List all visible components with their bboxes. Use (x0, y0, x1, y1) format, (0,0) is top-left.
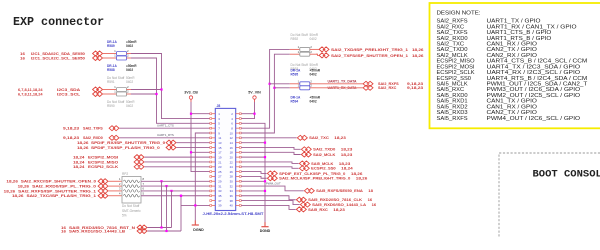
svg-text:18,26: 18,26 (412, 54, 424, 58)
svg-text:SAI2_MCLK: SAI2_MCLK (313, 153, 336, 157)
svg-text:SAI5_RXD0/ISO_14443_LA: SAI5_RXD0/ISO_14443_LA (312, 203, 366, 207)
svg-text:SAI2_MCLK/ISP_PRELIGHT_TRIG_0: SAI2_MCLK/ISP_PRELIGHT_TRIG_0 (279, 177, 350, 181)
svg-text:18,26: 18,26 (356, 177, 368, 181)
resistor R595 (290, 83, 300, 85)
svg-text:SAI2_RXD0: SAI2_RXD0 (83, 136, 103, 140)
svg-text:35: 35 (218, 194, 222, 198)
off-page connector SPDIF_TX (166, 145, 176, 150)
svg-text:R588: R588 (107, 68, 115, 72)
wire pin38 to SAI5_RXD0/ISO_14443_LA (241, 201, 300, 205)
svg-text:26: 26 (230, 170, 234, 174)
pin 5 (212, 122, 216, 124)
svg-text:16: 16 (20, 52, 25, 56)
wire riser stair 3 (171, 191, 173, 228)
svg-text:0402: 0402 (310, 37, 317, 41)
svg-text:18,26: 18,26 (4, 189, 16, 193)
svg-text:I2C1_SCL/I2C_SCL_SE050: I2C1_SCL/I2C_SCL_SE050 (31, 56, 85, 60)
svg-text:R594: R594 (291, 100, 299, 104)
svg-text:SAI5_RXD1/ISO_14443_LB: SAI5_RXD1/ISO_14443_LB (69, 229, 126, 233)
pin 10 (236, 132, 240, 134)
svg-text:25: 25 (218, 170, 222, 174)
svg-text:J-HE-20x2-2.54mm-ST-H8-SMT: J-HE-20x2-2.54mm-ST-H8-SMT (203, 212, 265, 216)
pin 28 (236, 175, 240, 177)
junction ground at pin20 row (264, 156, 266, 158)
ground DGND right (264, 222, 266, 227)
svg-text:28: 28 (230, 175, 234, 179)
pin 33 (212, 190, 216, 192)
pin 20 (236, 156, 240, 158)
off-page connector SAI2_RXD0/ISP_PL_TRIG_0 (98, 184, 108, 189)
resistor (do not stuff) on I2C3_SDA (103, 89, 117, 91)
svg-text:DGND: DGND (260, 229, 271, 233)
pin 4 (236, 118, 240, 120)
wire pin10 riser to R593 (241, 54, 290, 133)
svg-text:SAI2_RXC/ISP_SHUTTER_OPEN_0: SAI2_RXC/ISP_SHUTTER_OPEN_0 (21, 180, 96, 184)
pin 7 (212, 127, 216, 129)
svg-text:11: 11 (218, 136, 221, 140)
svg-text:23: 23 (218, 165, 222, 169)
off-page connector SAI5_RXC (296, 207, 306, 212)
svg-text:18,24: 18,24 (73, 156, 85, 160)
svg-text:16: 16 (368, 198, 373, 202)
off-page connector ECSPI2_MISO (134, 159, 144, 164)
junction RP2 row3 (170, 190, 172, 192)
svg-text:SAI2_TXC/ISP_FLASH_TRIG_1: SAI2_TXC/ISP_FLASH_TRIG_1 (27, 194, 97, 198)
svg-text:18,26: 18,26 (6, 180, 18, 184)
off-page connector SAI2_RXFS/ISP_SHUTTER_TRIG_1 (98, 188, 108, 193)
wire SAI5_RXD1 row (148, 230, 182, 232)
wire into RP2 pin1 (109, 180, 123, 182)
junction ground at pin34 row (264, 190, 266, 192)
svg-text:J8: J8 (217, 104, 221, 108)
wire into RP2 pin3 (109, 190, 123, 192)
wire RP2 out row1 to pin29 (141, 180, 210, 182)
wire pin32 to SAI5_RXFS/SE050_ENA (241, 186, 304, 191)
wire ECSPI2_MISO to pin21 (145, 161, 210, 163)
off-page connector SAI2_MCLK (301, 152, 311, 157)
svg-text:6,7,8,11,18,24: 6,7,8,11,18,24 (18, 88, 43, 92)
pin 6 (236, 122, 240, 124)
wire pin36 to SAI5_RXD2/ISO_7816_CLK (241, 196, 296, 200)
boot console box (499, 153, 600, 237)
pin 13 (212, 142, 216, 144)
wire UART1_RX_DATA (274, 87, 289, 89)
wire ground bus left from pin9 (195, 133, 210, 221)
svg-text:BOOT CONSOLE: BOOT CONSOLE (533, 168, 600, 180)
svg-text:SAI2_RXC: SAI2_RXC (378, 86, 397, 90)
off-page connector SAI2_TXFS (109, 126, 119, 131)
off-page connector I2C3_SCL (93, 92, 103, 97)
svg-text:10: 10 (230, 131, 234, 135)
wire I2C1_SDA to pin3 (131, 54, 210, 119)
pin 34 (236, 190, 240, 192)
svg-text:DESIGN NOTE:: DESIGN NOTE: (437, 10, 481, 16)
off-page connector SAI2_TXC/ISP_FLASH_TRIG_1 (98, 193, 108, 198)
pin 38 (236, 200, 240, 202)
junction RP2 row2 (165, 185, 167, 187)
svg-text:16: 16 (230, 146, 234, 150)
wire riser stair 4 (180, 196, 182, 231)
svg-text:18,26: 18,26 (77, 141, 89, 145)
design note box (430, 3, 600, 128)
wire R593 out (316, 54, 319, 55)
resistor R592 (290, 48, 300, 50)
svg-text:18,24: 18,24 (73, 165, 85, 169)
pin 39 (212, 204, 216, 206)
wire into RP2 pin4 (109, 195, 123, 197)
pin 18 (236, 151, 240, 153)
svg-text:12: 12 (230, 136, 234, 140)
junction ground at pin39 row (194, 204, 196, 206)
svg-text:29: 29 (218, 180, 222, 184)
wire 3V3_CB to pin1 and pin17/pin25 (191, 102, 210, 114)
svg-text:31: 31 (218, 184, 222, 188)
svg-text:SAI5_RXD2/ISO_7816_CLK: SAI5_RXD2/ISO_7816_CLK (308, 198, 362, 202)
svg-text:R591: R591 (107, 80, 115, 84)
svg-text:18,24: 18,24 (73, 160, 85, 164)
svg-text:EXP connector: EXP connector (13, 15, 104, 29)
off-page connector SAI5_MCLK (299, 161, 309, 166)
svg-text:DGND: DGND (193, 228, 204, 232)
svg-text:18,23: 18,23 (334, 136, 346, 140)
off-page connector SAI2_RXFS (363, 81, 373, 86)
wire 5V_VIN to pin2 and pin4 (241, 102, 254, 119)
off-page connector I2C1_SCL (93, 56, 103, 61)
svg-text:24: 24 (230, 165, 234, 169)
off-page connector SAI5_RXD2/ISO_7816_CLK (296, 197, 306, 202)
wire RP2 out row3 to pin33 (141, 190, 210, 192)
svg-text:R590: R590 (107, 104, 115, 108)
off-page connector SPDIF_RX (166, 140, 176, 145)
svg-text:R589: R589 (107, 44, 115, 48)
svg-text:SPDIF_EXT_CLK/ISP_PL_TRIG_0: SPDIF_EXT_CLK/ISP_PL_TRIG_0 (279, 172, 345, 176)
svg-text:9,18,23: 9,18,23 (407, 86, 423, 90)
svg-text:18: 18 (230, 151, 234, 155)
svg-text:ECSPI2_SS0: ECSPI2_SS0 (311, 167, 336, 171)
wire pin39 row to riser (181, 204, 210, 206)
pin 40 (236, 204, 240, 206)
wire RP2 out row4 to pin35 (141, 195, 210, 197)
pin 30 (236, 180, 240, 182)
svg-text:UART1_TX_DATA: UART1_TX_DATA (328, 80, 358, 84)
wire pin12 to SAI2_TXC (241, 137, 297, 139)
wire riser stair 1 (161, 181, 163, 227)
pin 8 (236, 127, 240, 129)
wire I2C3_SCL to bus (131, 93, 157, 95)
wire pin34 to ground bus (241, 190, 265, 192)
pin 15 (212, 146, 216, 148)
svg-text:0402: 0402 (310, 72, 317, 76)
pin 2 (236, 113, 240, 115)
svg-text:16: 16 (61, 229, 66, 233)
svg-text:14: 14 (230, 141, 234, 145)
svg-text:39: 39 (218, 204, 222, 208)
svg-text:21: 21 (218, 160, 222, 164)
svg-text:19: 19 (218, 155, 222, 159)
pin 12 (236, 137, 240, 139)
pin 22 (236, 161, 240, 163)
connector J8 body (215, 108, 235, 210)
svg-text:I2C3_SDA: I2C3_SDA (57, 88, 81, 92)
svg-text:SAI2_RXD0/ISP_PL_TRIG_0: SAI2_RXD0/ISP_PL_TRIG_0 (32, 184, 96, 188)
pin 32 (236, 185, 240, 187)
svg-text:38: 38 (230, 199, 234, 203)
svg-text:17: 17 (218, 151, 222, 155)
off-page connector SAI2_RXD0 (109, 135, 119, 140)
wire pin24 to ECSPI2_SS0 (241, 167, 299, 169)
svg-text:22: 22 (230, 160, 234, 164)
off-page connector SAI2_MCLK/ISP_PRELIGHT_TRIG_0 (267, 176, 277, 181)
svg-text:SAI5_MCLK: SAI5_MCLK (311, 162, 334, 166)
off-page connector ECSPI2_SCLK (134, 164, 144, 169)
off-page connector I2C1_SDA (93, 51, 103, 56)
wire SAI2_TXFS to pin7 (120, 127, 210, 129)
off-page connector SAI2_RXC/ISP_SHUTTER_OPEN_0 (98, 179, 108, 184)
pin 21 (212, 161, 216, 163)
svg-text:0402: 0402 (126, 68, 133, 72)
resistor (do not stuff) on I2C3_SCL (103, 93, 117, 95)
off-page connector ECSPI2_SS0 (299, 166, 309, 171)
svg-text:27: 27 (218, 175, 222, 179)
off-page connector SAI5_RXD0/ISO_14443_LA (300, 202, 310, 207)
svg-text:34: 34 (230, 189, 234, 193)
wire UART1_TX_DATA (270, 83, 290, 85)
svg-text:SAI2_TXFS: SAI2_TXFS (83, 127, 103, 131)
ground DGND left (194, 221, 196, 226)
off-page connector I2C3_SDA (93, 87, 103, 92)
wire pin28 to SAI2_MCLK/ISP_PRELIGHT_TRIG_0 (241, 176, 267, 178)
pin 16 (236, 146, 240, 148)
svg-text:30: 30 (230, 180, 234, 184)
svg-text:5%: 5% (122, 214, 127, 218)
svg-text:SPDIF_RX/ISP_SHUTTER_TRIG_0: SPDIF_RX/ISP_SHUTTER_TRIG_0 (91, 141, 165, 145)
svg-text:18,26: 18,26 (412, 48, 424, 52)
svg-text:SAI5_RXFS: SAI5_RXFS (437, 116, 469, 122)
junction ground at pin14 row (264, 142, 266, 144)
svg-text:0402: 0402 (126, 104, 133, 108)
svg-text:36: 36 (230, 194, 234, 198)
svg-text:16: 16 (20, 56, 25, 60)
pin 1 (212, 113, 216, 115)
off-page connector SAI5_RXD3 (137, 225, 147, 230)
junction ISO_14443 row (165, 230, 167, 232)
svg-text:33: 33 (218, 189, 222, 193)
wire I2C1_SCL to pin5 (131, 58, 210, 123)
svg-text:I2C1_SDA/I2C_SDA_SE050: I2C1_SDA/I2C_SDA_SE050 (31, 52, 85, 56)
svg-text:SAI5_RXC: SAI5_RXC (308, 208, 328, 212)
off-page connector SAI5_RXD1 (137, 229, 147, 234)
svg-text:UART1_CTS: UART1_CTS (157, 124, 174, 128)
svg-text:18,26: 18,26 (12, 194, 24, 198)
svg-text:32: 32 (230, 184, 234, 188)
off-page connector SAI2_TXFS/ISP_SHUTTER_OPEN_1 (319, 53, 329, 58)
svg-text:0402: 0402 (310, 100, 317, 104)
pin 3 (212, 118, 216, 120)
wire pin14 to ground bus (241, 142, 265, 144)
junction ground at pin30 row (264, 180, 266, 182)
off-page connector SAI5_RXFS/SE050_ENA (304, 188, 314, 193)
wire SPDIF_TX to pin15 (177, 146, 210, 148)
svg-text:UART1_RTS: UART1_RTS (157, 133, 174, 137)
svg-text:18: 18 (368, 189, 373, 193)
pin 37 (212, 200, 216, 202)
svg-text:13: 13 (218, 141, 222, 145)
wire SAI2_RXD0 to pin11 (120, 137, 210, 139)
svg-text:I2C3_SCL: I2C3_SCL (57, 92, 81, 96)
svg-text:SAI5_RXFS/SE050_ENA: SAI5_RXFS/SE050_ENA (316, 189, 363, 193)
svg-text:3V3_CB: 3V3_CB (184, 90, 198, 94)
svg-text:18,23: 18,23 (333, 208, 345, 212)
svg-text:18,23: 18,23 (339, 162, 351, 166)
wire pin26 to SPDIF_EXT_CLK/ISP_PL_TRIG_0 (241, 172, 267, 174)
svg-text:SMT-Generic: SMT-Generic (122, 209, 141, 213)
svg-text:18,26: 18,26 (77, 146, 89, 150)
svg-text:9,18,23: 9,18,23 (63, 136, 79, 140)
svg-text:R592: R592 (291, 37, 299, 41)
wire pin8 riser to R592 (241, 49, 290, 128)
svg-text:RP2: RP2 (122, 172, 128, 176)
off-page connector SAI2_TXC (297, 135, 307, 140)
wire ECSPI2_MOSI to pin19 (145, 156, 210, 158)
junction 3V3 at pin1 row (190, 113, 192, 115)
resistor R588 (103, 57, 117, 59)
svg-text:15: 15 (218, 146, 222, 150)
pin 17 (212, 151, 216, 153)
resistor R594 (290, 87, 300, 89)
off-page connector ECSPI2_MOSI (134, 155, 144, 160)
pin 14 (236, 142, 240, 144)
svg-text:PWM4_OUT / I2C6_SCL / GPIO: PWM4_OUT / I2C6_SCL / GPIO (487, 116, 581, 122)
wire pin20 to ground bus (241, 156, 265, 158)
svg-text:9,18,23: 9,18,23 (63, 127, 79, 131)
svg-text:SAI2_TXD/ISP_PRELIGHT_TRIG_1: SAI2_TXD/ISP_PRELIGHT_TRIG_1 (331, 48, 408, 52)
svg-text:37: 37 (218, 199, 222, 203)
svg-text:ECSPI2_SCLK: ECSPI2_SCLK (88, 165, 119, 169)
junction 3V3 at pin17 row (190, 151, 192, 153)
svg-text:R595: R595 (291, 72, 299, 76)
svg-text:Do Not Stuff: Do Not Stuff (122, 204, 139, 208)
off-page connector SPDIF_EXT_CLK/ISP_PL_TRIG_0 (267, 171, 277, 176)
wire into RP2 pin2 (109, 185, 123, 187)
wire RP2 out row2 to pin31 (141, 185, 210, 187)
off-page connector SAI2_RXC (363, 85, 373, 90)
junction RP2 row1 (160, 180, 162, 182)
pin 25 (212, 171, 216, 173)
junction ISO_7816 row (160, 226, 162, 228)
wire pin22 to SAI5_MCLK (241, 162, 299, 164)
pin 24 (236, 166, 240, 168)
svg-text:40: 40 (230, 204, 234, 208)
resistor R589 (103, 53, 117, 55)
svg-text:0402: 0402 (126, 44, 133, 48)
svg-text:18,26: 18,26 (18, 184, 30, 188)
svg-text:ECSPI2_MOSI: ECSPI2_MOSI (88, 156, 118, 160)
wire R594 to SAI2_RXC (316, 87, 363, 89)
pin 29 (212, 180, 216, 182)
svg-text:16: 16 (372, 203, 377, 207)
junction UART1_TX on riser (269, 83, 271, 85)
pin 35 (212, 195, 216, 197)
svg-text:18,24: 18,24 (341, 167, 353, 171)
pin 9 (212, 132, 216, 134)
off-page connector SAI2_TXD0 (301, 147, 311, 152)
resistor R593 (290, 53, 300, 55)
wire pin30 to ground bus (241, 180, 265, 182)
junction 5V at pin2 row (253, 113, 255, 115)
junction riser at pin35 row (180, 195, 182, 197)
svg-text:ECSPI2_MISO: ECSPI2_MISO (88, 160, 118, 164)
svg-text:0402: 0402 (126, 80, 133, 84)
junction UART1_RX on riser (273, 87, 275, 89)
svg-text:SAI2_RXFS/ISP_SHUTTER_TRIG_1: SAI2_RXFS/ISP_SHUTTER_TRIG_1 (18, 189, 96, 193)
junction I2C3_SDA (160, 88, 162, 90)
off-page connector SAI2_TXD/ISP_PRELIGHT_TRIG_1 (319, 47, 329, 52)
pin 36 (236, 195, 240, 197)
pin 19 (212, 156, 216, 158)
svg-text:18,23: 18,23 (341, 148, 353, 152)
wire ground bus right (241, 123, 265, 222)
wire SAI5_RXD3 row (148, 227, 172, 229)
svg-text:5V_VIN: 5V_VIN (248, 90, 261, 94)
svg-text:6,7,8,11,18,24: 6,7,8,11,18,24 (18, 92, 43, 96)
svg-text:PWM_OUT: PWM_OUT (266, 182, 281, 186)
junction RP2 row4 (180, 195, 182, 197)
wire ECSPI2_SCLK to pin23 (145, 166, 210, 168)
junction I2C3_SCL (155, 93, 157, 95)
svg-text:SPDIF_TX/ISP_FLASH_TRIG_0: SPDIF_TX/ISP_FLASH_TRIG_0 (91, 146, 160, 150)
wire pin18 to SAI2_MCLK (241, 152, 301, 154)
wire SPDIF_RX to pin13 (177, 142, 210, 144)
svg-text:SAI2_TXC: SAI2_TXC (309, 136, 329, 140)
svg-text:20: 20 (230, 155, 234, 159)
pin 11 (212, 137, 216, 139)
pin 23 (212, 166, 216, 168)
pin 27 (212, 175, 216, 177)
svg-text:18,23: 18,23 (341, 153, 353, 157)
pin 26 (236, 171, 240, 173)
wire I2C3_SDA to bus (131, 89, 162, 91)
wire pin40 to SAI5_RXC (241, 205, 296, 209)
wire riser stair 2 (166, 186, 168, 231)
wire R595 to SAI2_RXFS (316, 83, 363, 85)
pin 31 (212, 185, 216, 187)
wire pin16 to SAI2_TXD0 (241, 147, 301, 149)
svg-text:SAI2_TXFS/ISP_SHUTTER_OPEN_1: SAI2_TXFS/ISP_SHUTTER_OPEN_1 (331, 54, 408, 58)
svg-text:18,26: 18,26 (351, 172, 363, 176)
svg-text:SAI2_TXD0: SAI2_TXD0 (313, 148, 335, 152)
